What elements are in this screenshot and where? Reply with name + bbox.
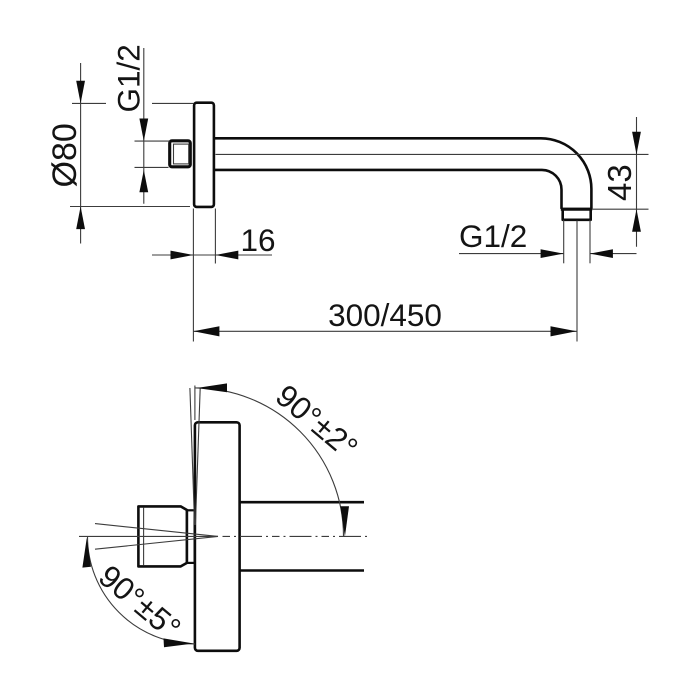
angle dim 90+-5: bottom arrow <box>164 638 194 647</box>
dim G1/2 bottom: left arrow <box>541 249 564 258</box>
dim Ø80: dimension line <box>80 63 82 244</box>
dim 16: dimension line <box>152 254 272 256</box>
hex nut inner edge line <box>143 508 145 566</box>
inlet fitting (G1/2 thread nut, side view) <box>170 141 191 167</box>
dim G1/2 top: upper extension line <box>135 140 170 142</box>
svg-text:16: 16 <box>240 222 275 258</box>
dim Ø80: label <box>46 123 84 187</box>
angle dim 90+-5: label <box>92 558 188 647</box>
svg-text:300/450: 300/450 <box>328 297 442 333</box>
dim G1/2 bottom: right tail line <box>590 253 637 255</box>
dim G1/2 top: lower arrow <box>139 170 148 192</box>
tolerance wedge -5 line <box>95 536 218 549</box>
dim G1/2 top: upper arrow <box>139 119 148 142</box>
dim Ø80: lower extension line <box>70 206 190 208</box>
svg-text:43: 43 <box>601 164 638 201</box>
svg-text:Ø80: Ø80 <box>46 123 84 187</box>
dim 16: left extension line (shared with 300/450) <box>192 209 194 342</box>
dim 300/450: dimension line <box>193 330 576 332</box>
centerline solid part <box>79 535 218 537</box>
outlet thread right line <box>589 220 591 263</box>
dim Ø80: upper arrow <box>76 81 85 104</box>
outlet collar <box>563 209 591 220</box>
wall flange F1 (side view) <box>194 103 214 207</box>
thread band between nut and flange <box>187 510 195 563</box>
dim 43: upper arrow <box>632 132 641 155</box>
dim 300/450: right arrow <box>551 326 577 336</box>
centerline dash-dot part <box>223 535 369 537</box>
dim G1/2 top: lower extension line <box>135 166 169 168</box>
angle dim 90+-2: label <box>269 377 365 466</box>
tolerance wedge +2 line <box>190 388 195 525</box>
tolerance wedge +5 line <box>95 524 218 537</box>
shower arm tube outer contour <box>214 138 592 209</box>
dim Ø80: upper extension line (two segments around text) <box>72 102 106 104</box>
shower arm tube inner contour <box>214 170 562 209</box>
dim G1/2 bottom: right arrow <box>590 249 613 258</box>
dim Ø80: lower arrow <box>76 207 85 230</box>
angle dim 90+-5: left arrow <box>82 538 91 568</box>
angle dim 90+-2: arc <box>195 388 344 537</box>
dim G1/2 top: dimension line <box>143 48 145 204</box>
hex nut (side view) <box>138 506 187 566</box>
tube bottom line (bottom view) <box>240 569 364 572</box>
dim 43: label <box>601 164 638 201</box>
angle dim 90+-2: top arrow <box>197 383 228 392</box>
svg-text:G1/2: G1/2 <box>459 218 527 254</box>
dim 16: left arrow <box>171 251 194 260</box>
angle dim 90+-5: arc <box>88 536 196 644</box>
dim 43: dimension line <box>636 117 638 247</box>
tube end edge <box>561 208 592 211</box>
dim 43: lower arrow <box>632 209 641 232</box>
wall flange F2 (bottom view) <box>195 422 240 651</box>
svg-text:G1/2: G1/2 <box>111 44 147 112</box>
outlet thread left line <box>563 220 565 263</box>
angle dim 90+-2: right arrow <box>340 506 349 537</box>
tolerance wedge -2 line <box>195 388 200 525</box>
tube middle line / extension for dim 43 <box>216 153 649 155</box>
inlet fitting inner face line <box>174 144 189 164</box>
tube top line (bottom view) <box>240 501 364 504</box>
dim 16: right arrow <box>215 251 238 260</box>
dim 43: lower extension line <box>592 208 649 210</box>
dim 300/450: left arrow <box>193 326 219 336</box>
dim G1/2 top: label <box>111 44 147 112</box>
dim G1/2 bottom: leader line <box>459 253 564 255</box>
dim 16: right extension line <box>214 209 216 264</box>
flange face extension line <box>194 386 196 421</box>
outlet centerline <box>576 221 578 342</box>
